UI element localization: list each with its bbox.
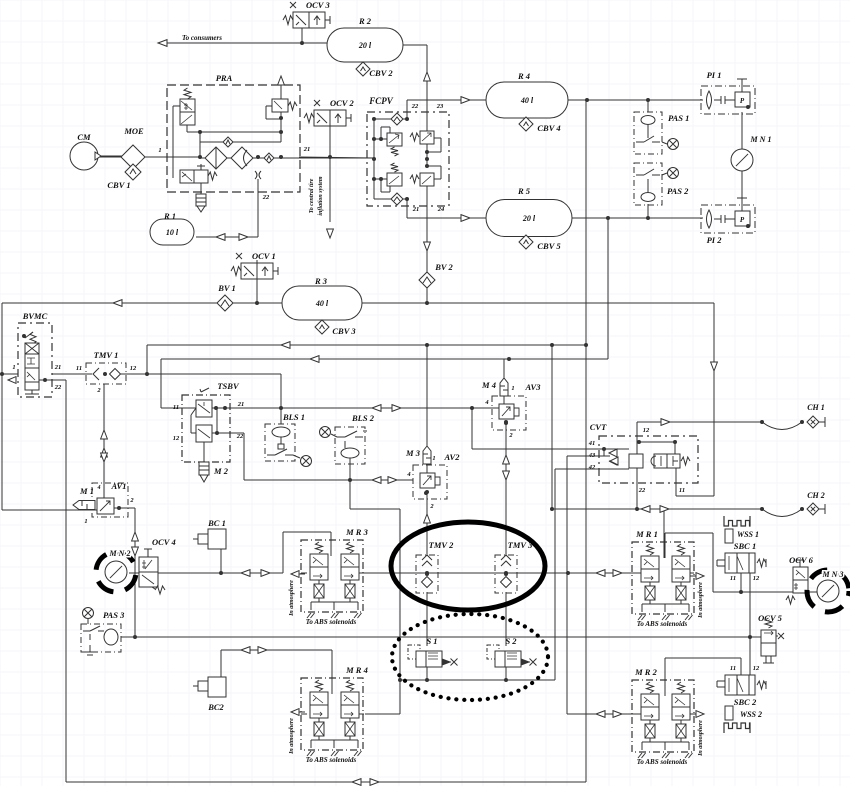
wire CVT12 up to CH1 line: [637, 422, 762, 436]
bottom line arrows: [352, 779, 379, 786]
pressure switch PAS 2: [634, 163, 689, 205]
two way valve TMV 3: [495, 540, 533, 593]
wire MR4 internal stubs: [301, 713, 364, 715]
FCPV23 up arrow: [424, 72, 431, 81]
svg-text:11: 11: [173, 404, 179, 411]
svg-text:CBV 2: CBV 2: [369, 68, 393, 78]
svg-text:To ABS solenoids: To ABS solenoids: [637, 758, 688, 766]
reservoir R5: [486, 186, 572, 237]
svg-text:M R 4: M R 4: [345, 665, 368, 675]
wire PI1-MN1-PI2 vertical: [741, 112, 743, 205]
svg-text:To ABS solenoids: To ABS solenoids: [306, 756, 357, 764]
valve AV2 with test point M3: [405, 446, 460, 510]
PRA governor feed line: [187, 125, 281, 132]
svg-text:S 1: S 1: [426, 636, 437, 646]
svg-text:22: 22: [411, 103, 419, 110]
label to central tire inflation: [309, 176, 333, 238]
svg-text:BV 1: BV 1: [217, 283, 236, 293]
wire PAS1 drop: [647, 100, 649, 112]
wire R3 line right corner down to CVT11: [676, 303, 714, 496]
check valve CBV 3: [315, 320, 356, 336]
svg-text:M R 3: M R 3: [345, 527, 368, 537]
wire MR1 control drop x=664: [663, 509, 665, 558]
wire MR2 internal stubs: [632, 713, 694, 715]
svg-text:PI 2: PI 2: [707, 235, 723, 245]
valve AV3 with test point M4: [481, 378, 541, 439]
svg-text:1: 1: [158, 147, 161, 154]
svg-text:FCPV: FCPV: [368, 96, 394, 106]
svg-text:To central tire: To central tire: [309, 178, 315, 213]
svg-text:M R 2: M R 2: [634, 667, 657, 677]
wire CVT22 drop to CH2 line: [636, 488, 638, 509]
svg-text:20 l: 20 l: [358, 41, 372, 50]
svg-text:BV 2: BV 2: [434, 262, 453, 272]
svg-text:22: 22: [638, 487, 646, 494]
wire MR1 top vertical: [664, 533, 666, 558]
wire trailer line corner down to TSBV11: [161, 359, 196, 408]
wire TSBV21 line y=408 to AV3 port4: [212, 407, 499, 409]
svg-text:22: 22: [54, 384, 62, 391]
svg-text:1: 1: [432, 455, 435, 462]
pressure switch PAS 3: [81, 610, 125, 655]
CH2 line arrows: [641, 506, 669, 513]
BLS2 lamp: [320, 427, 331, 438]
svg-text:OCV 6: OCV 6: [789, 555, 813, 565]
svg-text:12: 12: [753, 665, 760, 672]
wire PAS2 lamp: [662, 173, 667, 175]
svg-text:PAS 3: PAS 3: [103, 610, 125, 620]
brake signal controller SBC 1: [717, 541, 766, 582]
trailer line arrow: [310, 356, 319, 363]
arrow R3 line left: [113, 300, 122, 307]
PRA filter 2 water separator: [231, 147, 253, 169]
wire AV3 feed drop from y=359: [503, 359, 505, 396]
PRA drain valve 2/2: [180, 164, 217, 183]
wire left edge vertical R3 to BVMC port1: [2, 303, 18, 374]
svg-text:CBV 3: CBV 3: [332, 326, 356, 336]
wire branch x=552 from y=345 down to y=509: [551, 345, 553, 509]
svg-text:BC2: BC2: [207, 702, 224, 712]
svg-text:CBV 4: CBV 4: [537, 123, 560, 133]
svg-text:21: 21: [303, 146, 311, 153]
svg-text:R 1: R 1: [163, 211, 176, 221]
modulator MR 3: [289, 527, 369, 626]
solenoid valve S 1: [408, 636, 458, 667]
wire CH2 line y=509: [552, 508, 762, 510]
main line arrows near BC1: [241, 570, 270, 577]
wire PRA port22 down: [257, 182, 259, 237]
reservoir R2: [327, 16, 403, 62]
wire MR3 feed over top: [283, 532, 331, 573]
wire CH2 sag curve: [760, 507, 804, 517]
brake chamber BC 1: [193, 518, 226, 549]
wire R4 right to PI1: [568, 99, 703, 101]
svg-text:M N 1: M N 1: [750, 135, 772, 144]
wire MR3 internal stubs: [301, 572, 364, 574]
wire MR1 internal stubs: [632, 572, 694, 574]
wire TMV1-2 down to AV1: [103, 384, 105, 498]
svg-text:TMV 1: TMV 1: [94, 350, 119, 360]
arrow down BV2: [424, 242, 431, 251]
svg-text:24: 24: [437, 206, 445, 213]
svg-text:1: 1: [84, 518, 87, 525]
wire R4 service line y=345 to TMV1-12: [147, 345, 586, 374]
svg-text:CBV 5: CBV 5: [537, 241, 561, 251]
wire FCPV23 vertical down to BV2 and R3 line: [426, 206, 428, 303]
svg-text:CM: CM: [77, 132, 91, 142]
wire AV2-2 down to TMV2: [426, 493, 428, 556]
svg-text:12: 12: [130, 365, 137, 372]
compressor CM: [70, 132, 101, 170]
check valve CBV 2: [356, 62, 393, 78]
svg-text:R 2: R 2: [358, 16, 372, 26]
wire BC2 riser and MR4 feed: [221, 650, 332, 694]
svg-text:M 1: M 1: [79, 486, 94, 496]
PAS3 lamp: [83, 608, 94, 625]
svg-text:CVT: CVT: [590, 422, 607, 432]
valve AV1 with test point M1: [73, 481, 134, 525]
wire CH1 sag curve: [760, 420, 804, 430]
two way valve TMV 1: [76, 350, 137, 394]
solenoid valve OCV 3: [283, 0, 330, 43]
svg-text:R 4: R 4: [517, 71, 530, 81]
svg-text:11: 11: [730, 665, 736, 672]
svg-text:P: P: [740, 216, 745, 224]
brake chamber BC 2: [193, 677, 226, 712]
svg-text:21: 21: [237, 401, 245, 408]
wire SBC1-11 drop: [740, 573, 742, 592]
wire To-consumers line y=43: [158, 42, 327, 44]
trailer control valve CVT: [588, 422, 698, 494]
trailer supply brake valve TSBV: [173, 381, 245, 462]
wire left edge down to AV1 port1: [2, 374, 97, 510]
PRA 3/2 governor valve: [173, 88, 195, 178]
svg-text:11: 11: [76, 365, 82, 372]
FCPV bottom check: [374, 193, 407, 205]
gauge MN 3 with bold dashes: [807, 570, 849, 612]
svg-text:BVMC: BVMC: [22, 311, 48, 321]
PRA purge line x: [255, 171, 261, 182]
wire BLS2 junction down to y=509: [350, 480, 400, 509]
svg-text:OCV 1: OCV 1: [252, 251, 276, 261]
coupling head CH 2: [807, 491, 825, 515]
svg-text:S 2: S 2: [505, 636, 517, 646]
gauge MN 1: [731, 135, 771, 171]
TSBV22 line arrows: [372, 477, 397, 484]
wire SBC2-12 up to PAS3 line: [749, 637, 751, 675]
wire SBC2-11 to MR2 control: [665, 658, 741, 696]
svg-text:11: 11: [730, 575, 736, 582]
coupling head CH 1: [807, 403, 825, 428]
silencer M 2: [199, 442, 229, 482]
wire BVMC21 to TMV1: [52, 373, 92, 375]
wire BLS2 drop: [349, 467, 351, 480]
svg-text:21: 21: [412, 206, 420, 213]
svg-text:MOE: MOE: [123, 126, 144, 136]
solenoid valve OCV 6: [786, 555, 814, 604]
wire TMV1-12 drop to BLS1: [280, 374, 282, 424]
PRA small check valve at out: [264, 153, 274, 163]
wire TMV2 down to S1: [426, 592, 428, 646]
solenoid valve S 2: [487, 636, 537, 667]
wire BVMC22 to left drop x=66: [45, 380, 66, 782]
svg-text:WSS 1: WSS 1: [737, 530, 759, 539]
svg-text:1: 1: [12, 364, 15, 371]
svg-text:BLS 1: BLS 1: [282, 412, 305, 422]
svg-text:TSBV: TSBV: [217, 381, 240, 391]
svg-text:12: 12: [643, 427, 650, 434]
CVT internals: [599, 436, 690, 488]
wire M3 feed drop x=427 from y=345: [426, 345, 428, 446]
wire x=567 down to MR2 line: [567, 574, 632, 714]
modulator MR 1: [632, 529, 704, 628]
svg-text:SBC 2: SBC 2: [734, 697, 757, 707]
check valve CBV 4: [519, 117, 561, 133]
svg-text:23: 23: [436, 103, 444, 110]
wire BLS2 lamp: [331, 434, 337, 437]
svg-text:M 4: M 4: [481, 380, 496, 390]
FCPV left vertical: [374, 112, 427, 206]
reservoir R3: [282, 276, 362, 320]
svg-text:11: 11: [679, 487, 685, 494]
wire OCV6 to MN3: [807, 591, 817, 593]
check valve CBV 5: [519, 235, 561, 251]
R3-CVT11 down arrow: [711, 362, 718, 371]
wire BC1 drop: [220, 548, 222, 573]
pressure switch PAS 1: [634, 112, 689, 154]
svg-text:OCV 4: OCV 4: [152, 537, 176, 547]
bold ellipse highlight around TMV2 TMV3: [391, 522, 545, 610]
wire BLS1 drop junction: [280, 408, 282, 424]
svg-text:12: 12: [753, 575, 760, 582]
wire OCV4 MN2 line continues from MN2: [129, 572, 138, 574]
wire R4 long drop x=586: [585, 100, 587, 782]
svg-text:AV2: AV2: [444, 452, 461, 462]
wire PRA out 21 to FCPV: [299, 157, 374, 158]
svg-text:M 2: M 2: [213, 466, 229, 476]
wire AV1-2 down x=135: [115, 508, 135, 637]
svg-text:CH 2: CH 2: [807, 491, 825, 500]
arrow to consumers: [158, 34, 222, 46]
brake light switch BLS 2: [335, 413, 375, 467]
wire OCV4 right: [158, 572, 221, 574]
svg-text:To consumers: To consumers: [182, 34, 222, 42]
svg-text:WSS 2: WSS 2: [740, 710, 762, 719]
wire TMV3 down to S2: [505, 592, 507, 646]
svg-text:40 l: 40 l: [315, 299, 329, 308]
pressure regulator assembly PRA: [167, 73, 300, 192]
svg-text:12: 12: [173, 435, 180, 442]
solenoid valve OCV 5: [758, 613, 784, 663]
wire CVT43 line to x=567 drop: [567, 456, 599, 574]
svg-text:10 l: 10 l: [166, 228, 179, 237]
hand brake valve BVMC: [8, 311, 62, 397]
wire OCV5 connect: [750, 636, 761, 638]
modulator MR 2: [632, 667, 704, 766]
wire bottom line y=782: [66, 781, 586, 783]
wire CVT42 line: [555, 469, 599, 680]
wire tire-inflation branch down: [329, 157, 331, 222]
port label 1: [158, 147, 161, 154]
TSBV21 line arrows: [372, 405, 401, 412]
check valve CBV 1: [107, 164, 141, 190]
svg-text:In atmosphere: In atmosphere: [698, 582, 704, 619]
solenoid valve OCV 1: [231, 251, 278, 279]
svg-text:M N 2: M N 2: [109, 549, 131, 558]
port label 22: [262, 194, 270, 201]
wire TSBV22 line to AV2 port4: [212, 433, 413, 480]
MR1 feed arrows: [596, 570, 622, 577]
brake light switch BLS 1: [265, 412, 305, 461]
svg-text:41: 41: [588, 440, 596, 447]
svg-text:CH 1: CH 1: [807, 403, 825, 412]
wire AV3-4 branch down to CVT41: [472, 408, 599, 449]
svg-text:R 5: R 5: [517, 186, 531, 196]
svg-text:42: 42: [588, 464, 596, 471]
reservoir R1: [150, 211, 194, 245]
wire OCV1 drop to R3 line: [256, 279, 258, 303]
pressure indicator PI 1: [701, 70, 755, 114]
svg-text:TMV 2: TMV 2: [429, 540, 454, 550]
modulator MR 4: [289, 665, 368, 764]
FCPV valve upper-right: [410, 119, 441, 166]
wire PAS1 lamp: [662, 142, 667, 144]
wire R5 right to PI2: [572, 217, 703, 219]
pressure indicator PI 2: [701, 198, 755, 245]
solenoid valve OCV 2: [304, 98, 354, 126]
wire AV3-2 down to TMV3: [505, 422, 507, 556]
svg-text:PRA: PRA: [216, 73, 233, 83]
svg-text:P: P: [740, 97, 745, 105]
svg-text:43: 43: [588, 452, 596, 459]
svg-text:4: 4: [97, 485, 101, 491]
svg-text:AV1: AV1: [111, 481, 127, 491]
svg-text:PAS 1: PAS 1: [668, 113, 689, 123]
reservoir R4: [486, 71, 568, 118]
FCPV regulator lower-left: [374, 163, 402, 192]
MR2 feed arrows: [596, 711, 622, 718]
CVT12 arrow: [661, 419, 670, 426]
dotted ellipse highlight around S1 S2: [392, 614, 548, 700]
wire main supply y=157 CM to FCPV: [98, 157, 374, 158]
svg-text:1: 1: [511, 385, 514, 392]
svg-text:To ABS solenoids: To ABS solenoids: [637, 620, 688, 628]
R4 service line arrow: [281, 342, 290, 349]
solenoid valve OCV 4: [139, 537, 176, 594]
svg-text:CBV 1: CBV 1: [107, 180, 130, 190]
svg-text:22: 22: [236, 433, 244, 440]
wire PAS2 drop: [647, 204, 649, 218]
bleed valve BV 1: [217, 283, 236, 311]
wheel speed sensor WSS 2: [724, 706, 762, 733]
PRA filter 1: [205, 147, 227, 169]
arrow to R5: [461, 215, 470, 222]
bleed valve BV 2: [419, 262, 454, 288]
wire CM to MOE: [101, 155, 122, 157]
wire R3 line y=303: [2, 302, 714, 304]
MR4 feed arrows: [241, 647, 267, 654]
svg-text:40 l: 40 l: [520, 96, 534, 105]
two way valve TMV 2: [416, 540, 454, 593]
svg-text:OCV 3: OCV 3: [306, 0, 330, 10]
gauge MN 2 with bold dashes: [96, 549, 136, 592]
wire R1 to PRA22: [196, 236, 258, 238]
svg-text:To ABS solenoids: To ABS solenoids: [306, 618, 357, 626]
wire main brake line y=573: [129, 572, 283, 574]
wire S1 S2 bottom line y=680: [400, 667, 555, 680]
svg-text:In atmosphere: In atmosphere: [289, 718, 295, 755]
arrow to R4: [461, 97, 470, 104]
wire x=400 vertical to MR4 right: [365, 509, 400, 714]
svg-text:BLS 2: BLS 2: [351, 413, 375, 423]
wire SBC1-12 drop to PAS3 line: [749, 573, 751, 637]
svg-text:AV3: AV3: [525, 382, 542, 392]
FCPV valve lower-right: [410, 166, 441, 206]
svg-text:M 3: M 3: [405, 448, 421, 458]
FCPV top check: [374, 113, 407, 125]
TMV1 port2 arrows: [101, 430, 108, 462]
svg-text:M R 1: M R 1: [635, 529, 658, 539]
AV2 port2 arrow: [424, 514, 431, 523]
svg-text:OCV 2: OCV 2: [330, 98, 354, 108]
svg-text:M N 3: M N 3: [822, 570, 844, 579]
PRA silencer: [196, 183, 206, 212]
wire R5 long drop x=608 and trailer line y=359: [161, 218, 608, 359]
FCPV regulator upper-left: [374, 127, 402, 156]
wheel speed sensor WSS 1: [724, 516, 759, 543]
svg-text:PAS 2: PAS 2: [667, 186, 689, 196]
wire SBC1 area: MR1 control from OCV6 line: [665, 533, 793, 592]
AV3 port2 arrows: [503, 455, 510, 480]
svg-text:21: 21: [54, 364, 62, 371]
svg-text:In atmosphere: In atmosphere: [289, 580, 295, 617]
AV1 down arrows: [132, 532, 139, 556]
arrow R1 line: [216, 234, 248, 241]
brake signal controller SBC 2: [717, 665, 766, 707]
wire OCV2 drop: [329, 126, 331, 157]
port label 21: [303, 146, 311, 153]
svg-text:In atmosphere: In atmosphere: [698, 720, 704, 757]
four circuit protection valve FCPV: [367, 96, 449, 213]
svg-text:R 3: R 3: [314, 276, 328, 286]
svg-text:BC 1: BC 1: [207, 518, 226, 528]
PRA unloader relief valve: [266, 76, 297, 132]
wire FCPV22 up to R4: [407, 100, 486, 112]
wire PAS3 line y=637: [121, 636, 750, 638]
filter MOE: [121, 126, 145, 169]
svg-text:22: 22: [262, 194, 270, 201]
svg-text:SBC 1: SBC 1: [734, 541, 756, 551]
svg-text:PI 1: PI 1: [707, 70, 722, 80]
wire FCPV21 down to R5: [407, 206, 486, 218]
PRA check valve line: [200, 132, 281, 158]
svg-text:inflation system: inflation system: [318, 176, 324, 216]
wire MR3 right to MR1 left y=573: [364, 572, 632, 574]
svg-text:20 l: 20 l: [522, 214, 536, 223]
BLS1 lamp: [301, 456, 312, 467]
wire TMV1-12 line y=374: [119, 373, 281, 375]
wire R2 right to FCPV port 23: [402, 45, 427, 112]
